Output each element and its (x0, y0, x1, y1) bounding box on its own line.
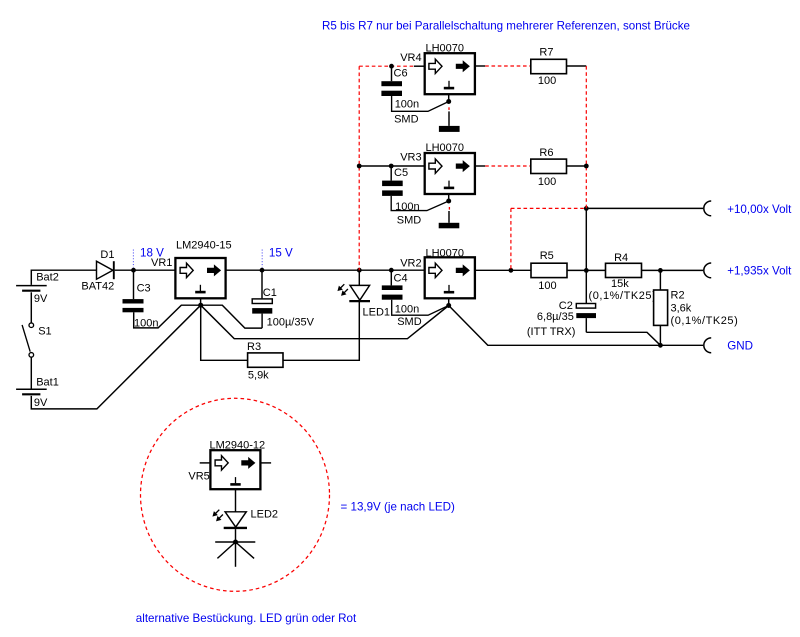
node star ground (198, 303, 203, 308)
alternative assembly circle red dotted (141, 398, 330, 591)
svg-text:15 V: 15 V (269, 247, 293, 260)
svg-text:BAT42: BAT42 (81, 281, 114, 293)
resistor R7 (531, 47, 567, 87)
regulator VR3 LH0070 (400, 142, 475, 194)
wire battery top to diode (31, 270, 96, 285)
capacitor C5 (382, 166, 421, 227)
wire LED2 cathode to star point (235, 529, 237, 542)
svg-text:LH0070: LH0070 (426, 43, 465, 55)
wire C4 bottom to VR2 ground node (392, 300, 449, 316)
svg-text:(0,1%/TK25): (0,1%/TK25) (671, 315, 739, 327)
wire star node to R3 (201, 305, 248, 360)
wire D1 to VR1 input (115, 269, 175, 271)
resistor R6 (531, 147, 567, 188)
wire star node to C1 bottom (201, 305, 262, 328)
wire C3 bottom to star ground (134, 305, 201, 328)
switch S1 (22, 323, 52, 357)
wire red dash stub below VR3 ground node (448, 207, 450, 210)
svg-text:alternative Bestückung. LED gr: alternative Bestückung. LED grün oder Ro… (136, 612, 357, 625)
svg-text:SMD: SMD (397, 316, 422, 328)
node VR2 output junction (509, 268, 514, 273)
node VR3 ground (446, 199, 451, 204)
node C5 junction (389, 164, 394, 169)
wire R6 to bus (567, 165, 586, 167)
svg-text:R7: R7 (539, 47, 553, 59)
wire C6 bottom to VR4 ground node (392, 96, 449, 111)
connector +1,935x Volt (704, 263, 792, 278)
svg-text:LH0070: LH0070 (426, 247, 465, 259)
node GND junction (658, 343, 663, 348)
svg-text:LM2940-15: LM2940-15 (176, 240, 232, 252)
node label 18 V with blue dotted probe (133, 247, 164, 268)
svg-text:+10,00x Volt: +10,00x Volt (727, 203, 792, 216)
svg-text:6,8µ/35: 6,8µ/35 (537, 311, 574, 323)
node 18V junction (131, 268, 136, 273)
svg-text:SMD: SMD (397, 215, 422, 227)
wire VR4 ground pin to node (448, 94, 450, 99)
wire red dashed parallel bus vertical (358, 66, 360, 270)
wire R3 to LED1 cathode (283, 302, 359, 361)
regulator VR5 LM2940-12 (188, 439, 271, 489)
svg-text:15k: 15k (611, 278, 629, 290)
wire VR4 output stub (475, 65, 485, 67)
battery Bat1 (16, 377, 59, 409)
svg-text:3,6k: 3,6k (671, 302, 692, 314)
wire VR5 to LED2 (235, 489, 237, 512)
node R6 output on bus (584, 164, 589, 169)
resistor R5 (531, 250, 567, 292)
node VR2 ground (446, 303, 451, 308)
svg-text:9V: 9V (34, 397, 48, 409)
svg-text:C2: C2 (559, 300, 573, 312)
regulator VR4 LH0070 (400, 43, 475, 95)
svg-text:100n: 100n (395, 99, 419, 111)
wire VR3 input (359, 165, 425, 167)
svg-text:LED2: LED2 (251, 508, 279, 520)
capacitor C4 (382, 270, 422, 328)
svg-text:100n: 100n (395, 303, 419, 315)
svg-text:100µ/35V: 100µ/35V (267, 316, 315, 328)
wire star point diagonal left (217, 542, 235, 558)
svg-text:R6: R6 (539, 147, 553, 159)
svg-text:LM2940-12: LM2940-12 (210, 439, 266, 451)
svg-text:LH0070: LH0070 (426, 142, 465, 154)
svg-text:C5: C5 (394, 167, 408, 179)
wire VR1 output rail to VR2 input (226, 269, 425, 271)
svg-text:R5: R5 (540, 250, 554, 262)
wire VR3 output stub (475, 165, 485, 167)
wire VR2 ground node to GND rail (449, 306, 703, 346)
capacitor C3 (123, 270, 159, 329)
wire R7 to bus corner (567, 65, 586, 67)
wire vertical +10V column (585, 208, 587, 303)
svg-text:R4: R4 (614, 252, 628, 264)
wire R4 to output (642, 269, 704, 271)
wire VR3 ground pin to node (448, 194, 450, 199)
svg-text:Bat2: Bat2 (36, 272, 59, 284)
svg-text:C6: C6 (394, 67, 408, 79)
LED LED2 (213, 508, 278, 528)
wire red dash stub below VR4 ground node (448, 107, 450, 110)
svg-text:(0,1%/TK25): (0,1%/TK25) (589, 290, 657, 302)
wire VR3 ground node to ground bar (448, 211, 450, 223)
capacitor C1 (252, 270, 314, 328)
capacitor C2 (527, 300, 596, 338)
wire red dashed VR4 output to R7 (485, 65, 530, 67)
svg-text:5,9k: 5,9k (248, 370, 269, 382)
wire star node to VR2 ground node (201, 305, 449, 339)
node C1 junction (260, 268, 265, 273)
wire VR2 output (475, 269, 531, 271)
svg-text:100: 100 (538, 280, 556, 292)
capacitor C6 (381, 66, 419, 125)
svg-text:GND: GND (727, 339, 753, 352)
node +10V junction (584, 206, 589, 211)
connector +10,00x Volt (704, 201, 792, 216)
svg-text:R5 bis R7 nur bei Parallelscha: R5 bis R7 nur bei Parallelschaltung mehr… (322, 19, 690, 32)
svg-text:(ITT TRX): (ITT TRX) (527, 326, 575, 338)
svg-text:R3: R3 (247, 341, 261, 353)
svg-text:VR1: VR1 (151, 257, 172, 269)
svg-text:C1: C1 (263, 287, 277, 299)
wire red dashed VR3 output to R6 (485, 165, 530, 167)
svg-text:R2: R2 (671, 290, 685, 302)
ground bar VR3 (439, 223, 460, 229)
wire S1 to Bat1 (30, 357, 32, 388)
node R5-R4 junction (584, 268, 589, 273)
wire star point vertical (235, 542, 237, 567)
wire Bat1 bottom return to star ground (31, 305, 200, 409)
svg-text:VR3: VR3 (400, 152, 421, 164)
regulator VR2 LH0070 (400, 247, 475, 298)
node VR4 ground (446, 99, 451, 104)
wire red dashed +10V branch vertical (510, 208, 512, 270)
wire red dashed output bus vertical (585, 66, 587, 208)
svg-text:C4: C4 (394, 273, 408, 285)
wire VR2 ground pin to ground node (448, 298, 450, 304)
wire VR4 ground node to ground bar (448, 111, 450, 126)
node VR3 input on bus (357, 164, 362, 169)
wire VR4 input stub (414, 65, 425, 67)
svg-text:= 13,9V (je nach LED): = 13,9V (je nach LED) (341, 501, 456, 514)
resistor R2 (654, 270, 739, 345)
wire star point diagonal right (236, 542, 255, 558)
wire red dashed +10V branch horizontal (511, 207, 586, 209)
svg-text:VR5: VR5 (188, 470, 209, 482)
svg-text:Bat1: Bat1 (36, 377, 59, 389)
connector GND (704, 338, 753, 353)
resistor R3 (247, 341, 283, 382)
svg-text:VR4: VR4 (400, 52, 421, 64)
node C4 junction (389, 268, 394, 273)
svg-text:C3: C3 (137, 282, 151, 294)
wire +10V output (586, 207, 703, 209)
LED LED1 (338, 270, 390, 318)
wire VR1 ground pin to star node (200, 298, 202, 303)
svg-text:VR2: VR2 (400, 257, 421, 269)
node R4 output junction (658, 268, 663, 273)
node C6 junction (389, 64, 394, 69)
svg-text:LED1: LED1 (363, 306, 391, 318)
svg-text:100: 100 (538, 75, 556, 87)
wire C5 bottom to VR3 ground node (391, 196, 449, 211)
resistor R4 (589, 252, 657, 302)
diode D1 BAT42 (81, 249, 114, 293)
regulator VR1 LM2940-15 (151, 240, 232, 299)
svg-text:SMD: SMD (394, 114, 419, 126)
ground bar VR4 (439, 126, 460, 132)
node LED1 junction (357, 268, 362, 273)
wire Bat2 to S1 (30, 292, 32, 322)
wire red dashed VR4 input (359, 65, 414, 67)
node LED2 star point (233, 540, 238, 545)
battery Bat2 (16, 272, 59, 306)
wire C2 bottom to GND junction (586, 332, 660, 345)
svg-text:+1,935x Volt: +1,935x Volt (727, 264, 792, 277)
svg-text:100: 100 (538, 176, 556, 188)
node label 15 V with blue dotted probe (262, 247, 293, 268)
svg-text:D1: D1 (100, 249, 114, 261)
svg-text:9V: 9V (34, 293, 48, 305)
svg-text:S1: S1 (38, 326, 51, 338)
wire star point horizontal (215, 541, 255, 543)
wire R5 to R4 (567, 269, 606, 271)
